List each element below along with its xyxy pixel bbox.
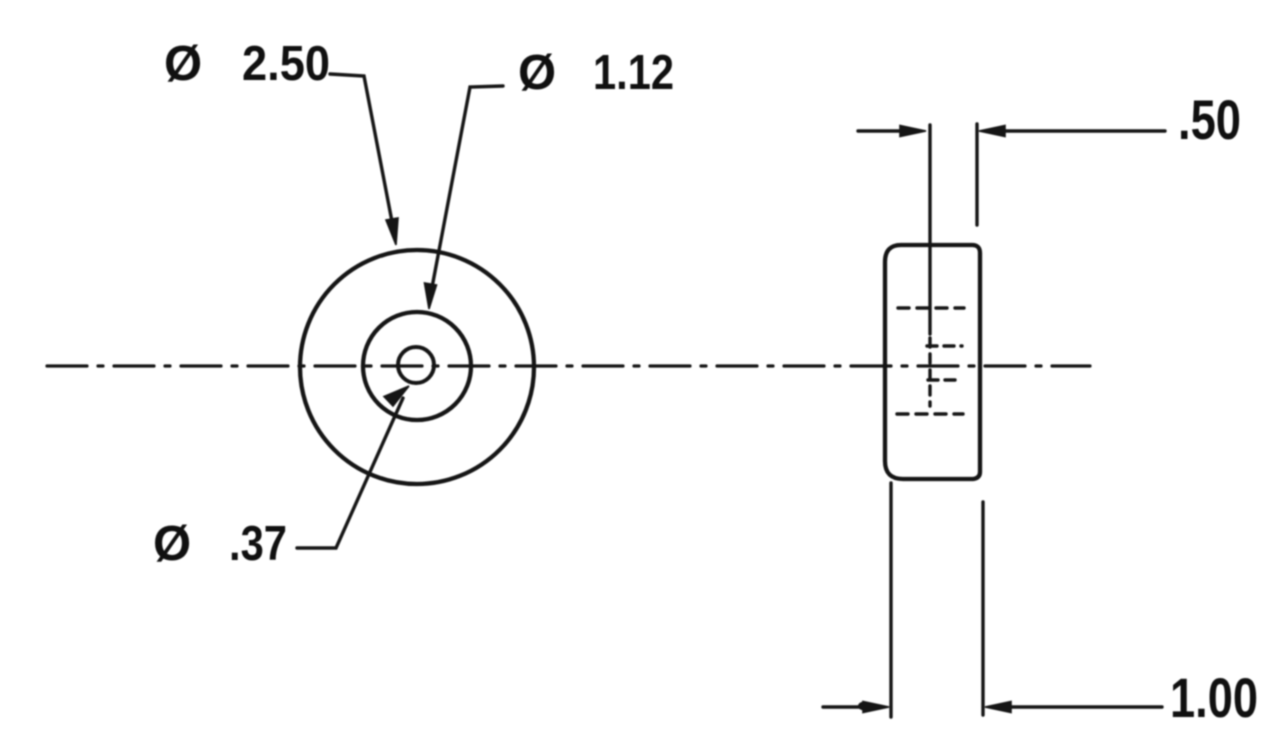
- side view body outline: [885, 245, 980, 479]
- dimension line .50 right: [1002, 129, 1165, 132]
- svg-text:1.12: 1.12: [593, 46, 674, 100]
- outer circle (front view, dia 2.50): [300, 250, 534, 484]
- arrowhead 1.00 right: [985, 702, 1011, 713]
- arrowhead 1.00 left: [863, 702, 889, 713]
- hidden line hole top: [927, 344, 962, 347]
- arrowhead for dia 2.50 leader: [386, 218, 398, 245]
- ink blob on dimension line: [858, 702, 870, 711]
- arrowhead .50 left: [900, 126, 926, 137]
- svg-text:1.00: 1.00: [1170, 666, 1258, 729]
- extension line cbore depth: [928, 125, 931, 334]
- hidden line counterbore top: [898, 306, 964, 309]
- hidden line counterbore face vertical: [928, 338, 931, 406]
- svg-text:Ø: Ø: [153, 517, 191, 571]
- dimension line 1.00 left: [823, 705, 866, 708]
- counterbore circle (front view, dia 1.12): [363, 312, 471, 420]
- extension line left face bottom: [889, 483, 892, 717]
- dimension line .50 left: [858, 129, 903, 132]
- leader line for dia .37: [297, 398, 403, 548]
- hidden line hole bottom: [928, 378, 961, 381]
- svg-text:.50: .50: [1178, 88, 1241, 151]
- extension line right face bottom: [981, 502, 984, 715]
- svg-text:2.50: 2.50: [242, 37, 330, 91]
- arrowhead for dia 1.12 leader: [425, 283, 437, 309]
- leader line for dia 2.50: [330, 74, 394, 232]
- svg-text:Ø: Ø: [164, 37, 202, 91]
- hole circle (front view, dia .37): [398, 347, 434, 383]
- svg-text:.37: .37: [229, 517, 287, 571]
- arrowhead .50 right: [979, 126, 1005, 137]
- dimension line 1.00 right: [1010, 705, 1162, 708]
- leader line for dia 1.12: [430, 86, 503, 298]
- centerline horizontal axis: [47, 364, 1090, 367]
- hidden line counterbore bottom: [897, 412, 963, 415]
- extension line right face top: [975, 124, 978, 225]
- svg-text:Ø: Ø: [518, 46, 556, 100]
- arrowhead for dia .37 leader: [384, 386, 409, 406]
